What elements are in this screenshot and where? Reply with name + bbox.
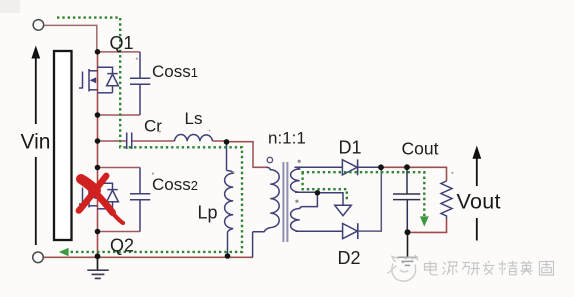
capacitor Cr [127, 133, 132, 150]
node: transformer centre tap [315, 190, 321, 196]
ground: secondary reference triangle [335, 205, 352, 216]
watermark char jing [499, 261, 518, 275]
transistor Q2 (MOSFET with body diode, shorted one) [79, 183, 118, 209]
node: Lp bottom junction [225, 253, 231, 259]
terminal: bottom-left - [33, 252, 44, 263]
wire: Coss2 top branch [98, 167, 141, 169]
speck marks [136, 58, 454, 175]
transformer primary winding [253, 167, 280, 257]
node: Cout top junction [404, 164, 410, 170]
wire: output top rail from D-junction to load [381, 167, 447, 181]
diode D2 [343, 223, 358, 239]
arrow: secondary loop arrowhead (down) [420, 216, 429, 226]
watermark char quan [540, 262, 554, 276]
arrow: Vout polarity arrow [472, 146, 481, 241]
node: Q1 drain junction [95, 49, 101, 55]
capacitor Cout [393, 167, 420, 232]
node A: Ls / Lp / primary junction [224, 139, 230, 145]
wire: left input rail [97, 52, 99, 258]
watermark text [425, 261, 554, 275]
wire: Coss2 bottom branch [98, 231, 141, 233]
wire: Cr-Ls series branch [98, 140, 127, 142]
arrow: primary loop arrowhead (left) [59, 248, 69, 257]
wire: top feed from + terminal to Q1 drain node [44, 25, 97, 51]
transistor Q1 (MOSFET with body diode) [79, 67, 118, 93]
polarity mark: primary dot [267, 157, 272, 162]
battery: Vin source rectangle [54, 51, 72, 240]
wire: D2 cathode riser to output node [358, 167, 382, 231]
resistor: output load [441, 181, 452, 219]
transformer secondary winding 1 [291, 167, 318, 192]
svg-text:Lp: Lp [198, 203, 218, 223]
diode D1 [342, 159, 357, 175]
svg-text:Vout: Vout [457, 190, 501, 214]
transformer core [282, 162, 284, 242]
green dotted current path: primary loop [57, 18, 242, 252]
ground: output ground symbol [397, 257, 417, 265]
svg-text:Cr: Cr [144, 117, 162, 136]
watermark logo [388, 256, 419, 282]
watermark char yan [462, 263, 480, 275]
svg-text:D2: D2 [338, 248, 361, 268]
svg-text:Vin: Vin [21, 131, 51, 154]
svg-text:Cout: Cout [402, 139, 439, 159]
watermark char fa [483, 261, 495, 275]
watermark char ying [520, 261, 532, 275]
wire: node A to transformer primary top [227, 142, 267, 168]
capacitor Coss2 [130, 168, 150, 232]
transformer secondary winding 2 [291, 193, 343, 232]
node: D1/D2 cathode junction [378, 164, 384, 170]
svg-text:Coss2: Coss2 [152, 175, 198, 194]
wire: centre tap to secondary ground [317, 193, 343, 205]
terminal: top-left + [33, 20, 44, 31]
svg-text:Q1: Q1 [110, 33, 134, 53]
watermark char dian [425, 261, 439, 275]
node: Q2 source junction [95, 229, 101, 235]
inductor Lp [225, 142, 234, 256]
node: Cout bottom junction [405, 229, 411, 235]
inductor Ls [175, 135, 213, 141]
annotation: red X over Q2 [79, 176, 123, 223]
wire: D1 cathode to output node [358, 166, 382, 168]
polarity mark: secondary 2 dot [295, 200, 298, 203]
watermark char yuan [443, 262, 458, 275]
wire: Coss1 top branch [98, 51, 141, 53]
wire: bottom return rail [44, 256, 254, 258]
wire: output node to secondary ground [407, 232, 409, 257]
node: Q1 source / Coss1 junction [95, 112, 101, 118]
wire: secondary winding 1 to D1 anode [295, 166, 343, 168]
ground: primary ground symbol [87, 270, 108, 278]
wire: load bottom lead and output bottom rail [407, 219, 446, 233]
green dotted current path: secondary loop [302, 172, 425, 216]
node: ground tap junction [95, 253, 101, 259]
svg-text:Coss1: Coss1 [152, 62, 198, 81]
capacitor Coss1 [130, 52, 150, 115]
svg-text:Ls: Ls [185, 109, 203, 128]
polarity mark: secondary 1 dot [298, 160, 301, 163]
svg-text:n:1:1: n:1:1 [268, 129, 306, 148]
svg-text:D1: D1 [339, 138, 362, 158]
node: Q2 drain junction [95, 165, 101, 171]
wire: primary ground tap [97, 256, 99, 270]
wire: Coss1 bottom branch [98, 114, 141, 116]
svg-text:Q2: Q2 [110, 236, 134, 256]
node: Cr branch junction [95, 138, 101, 144]
arrow: Vin polarity arrow [31, 46, 40, 246]
